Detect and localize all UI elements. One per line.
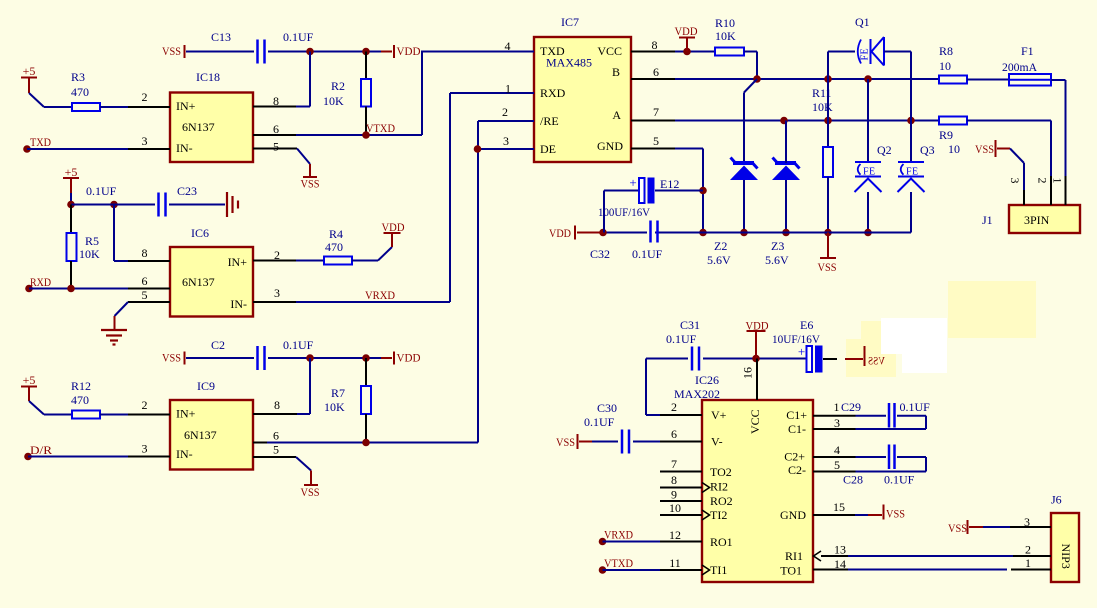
svg-text:R12: R12: [71, 379, 91, 393]
svg-text:RI2: RI2: [710, 480, 728, 494]
svg-text:MAX485: MAX485: [546, 56, 592, 70]
svg-text:0.1UF: 0.1UF: [86, 184, 117, 198]
svg-text:6: 6: [273, 429, 279, 443]
svg-text:470: 470: [325, 240, 343, 254]
svg-text:TO2: TO2: [710, 465, 732, 479]
svg-text:3: 3: [503, 134, 509, 148]
svg-text:1: 1: [1051, 178, 1065, 184]
svg-text:C29: C29: [841, 400, 861, 414]
svg-text:C2+: C2+: [784, 450, 805, 464]
svg-text:2: 2: [1036, 178, 1050, 184]
svg-text:C30: C30: [597, 401, 617, 415]
svg-text:Q3: Q3: [920, 143, 935, 157]
svg-text:16: 16: [741, 367, 755, 379]
svg-text:6: 6: [142, 274, 148, 288]
svg-text:1: 1: [1025, 556, 1031, 570]
svg-text:IN+: IN+: [176, 99, 196, 113]
svg-text:5: 5: [653, 134, 659, 148]
svg-text:VSS: VSS: [162, 44, 181, 58]
svg-text:B: B: [612, 65, 620, 79]
svg-text:NIP3: NIP3: [1059, 544, 1073, 569]
svg-text:TI1: TI1: [710, 563, 727, 577]
svg-text:6: 6: [671, 427, 677, 441]
svg-text:10K: 10K: [79, 247, 100, 261]
svg-text:6N137: 6N137: [182, 120, 215, 134]
svg-text:R10: R10: [715, 16, 735, 30]
svg-text:0.1UF: 0.1UF: [884, 473, 915, 487]
svg-text:R5: R5: [85, 234, 99, 248]
svg-text:GND: GND: [597, 139, 623, 153]
svg-text:IC6: IC6: [191, 226, 209, 240]
svg-text:VSS: VSS: [301, 485, 320, 499]
svg-text:470: 470: [71, 85, 89, 99]
svg-text:10K: 10K: [323, 94, 344, 108]
svg-text:VRXD: VRXD: [365, 288, 395, 302]
svg-text:D/R: D/R: [30, 443, 52, 457]
svg-text:RO1: RO1: [710, 535, 733, 549]
svg-text:100UF/16V: 100UF/16V: [598, 205, 650, 219]
svg-text:TO1: TO1: [780, 564, 802, 578]
svg-text:0.1UF: 0.1UF: [283, 30, 314, 44]
svg-text:R11: R11: [812, 86, 832, 100]
svg-text:VSS: VSS: [975, 142, 994, 156]
svg-text:3: 3: [274, 286, 280, 300]
svg-text:9: 9: [671, 488, 677, 502]
svg-text:F1: F1: [1021, 44, 1034, 58]
svg-text:RXD: RXD: [540, 86, 566, 100]
svg-text:VDD: VDD: [675, 24, 698, 38]
svg-text:IC26: IC26: [695, 373, 719, 387]
svg-text:Z2: Z2: [714, 239, 727, 253]
svg-text:2: 2: [142, 90, 148, 104]
svg-text:VCC: VCC: [748, 409, 762, 434]
svg-text:VDD: VDD: [382, 220, 405, 234]
svg-text:8: 8: [652, 38, 658, 52]
svg-text:RI1: RI1: [785, 549, 803, 563]
svg-text:5: 5: [834, 458, 840, 472]
svg-text:C28: C28: [843, 473, 863, 487]
svg-text:FE: FE: [906, 167, 919, 178]
svg-text:10K: 10K: [324, 400, 345, 414]
svg-text:3: 3: [142, 134, 148, 148]
svg-text:VSS: VSS: [301, 177, 320, 191]
svg-text:RXD: RXD: [30, 275, 51, 289]
svg-text:TXD: TXD: [30, 135, 51, 149]
svg-text:5: 5: [273, 140, 279, 154]
svg-text:V+: V+: [711, 408, 727, 422]
svg-text:+5: +5: [23, 64, 36, 78]
svg-text:V-: V-: [711, 435, 723, 449]
svg-text:+5: +5: [23, 373, 36, 387]
svg-text:0.1UF: 0.1UF: [283, 338, 314, 352]
svg-text:C13: C13: [211, 30, 231, 44]
svg-text:MAX202: MAX202: [674, 387, 720, 401]
svg-text:VSS: VSS: [818, 260, 837, 274]
svg-text:4: 4: [505, 39, 511, 53]
svg-text:VDD: VDD: [397, 351, 421, 365]
svg-text:IN+: IN+: [228, 255, 248, 269]
svg-text:R8: R8: [939, 44, 953, 58]
svg-text:5.6V: 5.6V: [707, 253, 731, 267]
svg-text:2: 2: [142, 398, 148, 412]
svg-text:2: 2: [502, 105, 508, 119]
svg-text:VTXD: VTXD: [366, 121, 395, 135]
svg-text:FE: FE: [863, 167, 876, 178]
svg-text:0.1UF: 0.1UF: [900, 400, 931, 414]
svg-text:4: 4: [834, 443, 840, 457]
svg-text:7: 7: [653, 105, 659, 119]
svg-text:8: 8: [671, 473, 677, 487]
svg-text:7: 7: [671, 457, 677, 471]
svg-text:R2: R2: [331, 79, 345, 93]
svg-text:VDD: VDD: [397, 44, 421, 58]
svg-text:8: 8: [142, 246, 148, 260]
svg-text:IN-: IN-: [230, 297, 247, 311]
svg-text:IN-: IN-: [176, 141, 193, 155]
svg-text:5: 5: [273, 443, 279, 457]
svg-text:0.1UF: 0.1UF: [632, 247, 663, 261]
svg-text:5: 5: [142, 288, 148, 302]
svg-text:2: 2: [1025, 543, 1031, 557]
svg-text:C31: C31: [680, 318, 700, 332]
svg-text:VSS: VSS: [868, 354, 885, 368]
svg-text:6N137: 6N137: [182, 275, 215, 289]
svg-text:1: 1: [834, 400, 840, 414]
svg-text:J1: J1: [982, 213, 993, 227]
svg-text:2: 2: [274, 248, 280, 262]
svg-text:8: 8: [273, 94, 279, 108]
svg-text:GND: GND: [780, 508, 806, 522]
svg-text:6: 6: [653, 65, 659, 79]
svg-text:R4: R4: [329, 227, 343, 241]
svg-text:IN+: IN+: [176, 407, 196, 421]
svg-text:+: +: [629, 175, 636, 190]
svg-text:10K: 10K: [715, 29, 736, 43]
svg-text:C23: C23: [177, 184, 197, 198]
svg-text:10: 10: [948, 142, 960, 156]
svg-text:VSS: VSS: [556, 435, 575, 449]
svg-text:Q2: Q2: [877, 143, 892, 157]
svg-text:3: 3: [142, 442, 148, 456]
svg-text:VSS: VSS: [948, 521, 967, 535]
svg-text:C1-: C1-: [788, 422, 806, 436]
svg-text:C2: C2: [211, 338, 225, 352]
svg-text:VDD: VDD: [549, 226, 571, 240]
svg-text:E12: E12: [660, 177, 679, 191]
svg-text:11: 11: [669, 556, 681, 570]
svg-text:A: A: [612, 108, 621, 122]
svg-text:IC18: IC18: [196, 70, 220, 84]
svg-text:10UF/16V: 10UF/16V: [772, 332, 820, 346]
svg-text:5.6V: 5.6V: [765, 253, 789, 267]
svg-text:0.1UF: 0.1UF: [666, 332, 697, 346]
svg-text:FE: FE: [860, 48, 871, 61]
svg-text:IC7: IC7: [561, 15, 579, 29]
svg-text:R9: R9: [939, 128, 953, 142]
svg-text:3: 3: [1024, 515, 1030, 529]
svg-text:R3: R3: [71, 70, 85, 84]
svg-text:VCC: VCC: [597, 44, 622, 58]
svg-text:+5: +5: [65, 165, 78, 179]
svg-text:VSS: VSS: [162, 351, 181, 365]
svg-text:DE: DE: [540, 142, 556, 156]
svg-text:10: 10: [939, 59, 951, 73]
svg-text:VRXD: VRXD: [604, 528, 633, 542]
svg-text:IC9: IC9: [197, 379, 215, 393]
svg-text:Q1: Q1: [855, 15, 870, 29]
svg-text:J6: J6: [1051, 493, 1062, 507]
svg-text:2: 2: [671, 400, 677, 414]
svg-text:10: 10: [669, 501, 681, 515]
svg-text:VTXD: VTXD: [604, 556, 633, 570]
svg-text:6N137: 6N137: [184, 428, 217, 442]
svg-text:C32: C32: [590, 247, 610, 261]
svg-text:C2-: C2-: [788, 463, 806, 477]
svg-text:Z3: Z3: [771, 239, 784, 253]
svg-text:C1+: C1+: [786, 408, 807, 422]
svg-text:R7: R7: [331, 386, 345, 400]
svg-text:VSS: VSS: [886, 507, 905, 521]
svg-text:13: 13: [834, 543, 846, 557]
svg-text:470: 470: [71, 393, 89, 407]
svg-text:3: 3: [1008, 178, 1022, 184]
svg-text:8: 8: [274, 398, 280, 412]
svg-text:/RE: /RE: [540, 114, 559, 128]
svg-text:IN-: IN-: [176, 447, 193, 461]
svg-text:+: +: [798, 344, 805, 359]
svg-text:1: 1: [505, 82, 511, 96]
svg-text:0.1UF: 0.1UF: [584, 415, 615, 429]
svg-text:200mA: 200mA: [1002, 60, 1037, 74]
svg-text:10K: 10K: [812, 100, 833, 114]
svg-text:RO2: RO2: [710, 494, 733, 508]
svg-text:6: 6: [273, 122, 279, 136]
svg-text:E6: E6: [800, 318, 813, 332]
svg-text:12: 12: [669, 528, 681, 542]
svg-text:15: 15: [833, 500, 845, 514]
svg-text:3PIN: 3PIN: [1024, 213, 1050, 227]
svg-text:TI2: TI2: [710, 508, 727, 522]
svg-text:3: 3: [834, 416, 840, 430]
